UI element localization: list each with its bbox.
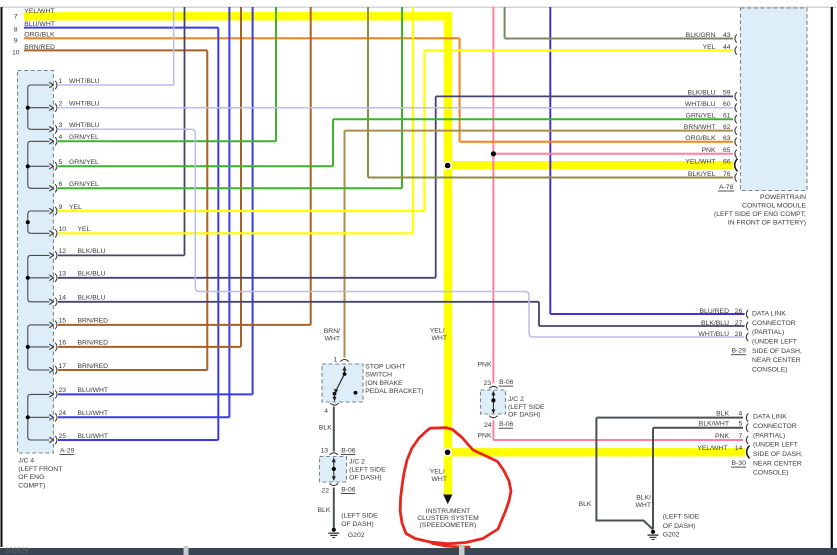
svg-text:YEL/WHT: YEL/WHT <box>24 8 54 15</box>
bottom scrollbar <box>0 548 837 555</box>
svg-text:15: 15 <box>59 318 67 325</box>
svg-text:6: 6 <box>59 181 63 188</box>
J/C 4 pin 24 terminal <box>49 415 53 421</box>
wire GRN/YEL pin5 vertical <box>332 119 334 166</box>
svg-text:BLK: BLK <box>579 501 592 508</box>
PCM pin 65 terminal <box>735 150 737 158</box>
svg-text:BLK/YEL: BLK/YEL <box>688 171 716 178</box>
svg-text:23: 23 <box>59 387 67 394</box>
svg-text:BLK: BLK <box>716 410 729 417</box>
svg-text:WHT/BLU: WHT/BLU <box>69 122 100 129</box>
svg-text:BLU/WHT: BLU/WHT <box>78 387 109 394</box>
wire YEL/WHT 66 branch to PCM <box>448 161 733 169</box>
wire BLU/WHT pin24 horizontal <box>58 416 229 418</box>
svg-text:(LEFT SIDE: (LEFT SIDE <box>663 514 700 521</box>
stop light switch internals <box>343 366 347 371</box>
svg-text:61: 61 <box>723 113 731 120</box>
wire BLK/GRN 43 vertical <box>504 7 506 39</box>
data link B-30 pin 5 terminal <box>746 424 748 432</box>
J/C 2 no.2 box <box>481 390 506 414</box>
svg-text:BLK/GRN: BLK/GRN <box>686 32 716 39</box>
svg-text:PEDAL BRACKET): PEDAL BRACKET) <box>365 388 423 395</box>
PCM pin 44 terminal <box>735 46 737 54</box>
wire GRN/YEL pin4 horizontal <box>58 140 276 142</box>
svg-text:(UNDER LEFT: (UNDER LEFT <box>753 442 798 449</box>
wire BLK/GRN 43 horizontal <box>505 38 733 40</box>
svg-text:B-29: B-29 <box>732 348 747 355</box>
svg-text:YEL/WHT: YEL/WHT <box>685 158 715 165</box>
svg-text:13: 13 <box>320 448 328 455</box>
J/C 4 pin 25 terminal <box>49 437 53 443</box>
J/C 4 internal bus bracket group 6 <box>28 394 50 440</box>
svg-text:INSTRUMENT: INSTRUMENT <box>426 508 471 515</box>
svg-text:BLK/: BLK/ <box>636 495 651 502</box>
svg-text:WHT: WHT <box>325 335 340 342</box>
svg-text:(LEFT SIDE: (LEFT SIDE <box>508 404 545 411</box>
svg-text:DATA LINK: DATA LINK <box>753 414 787 421</box>
svg-text:9: 9 <box>59 204 63 211</box>
svg-text:BLK/BLU: BLK/BLU <box>78 295 106 302</box>
svg-text:ORG/BLK: ORG/BLK <box>24 32 55 39</box>
PCM pin 60 terminal <box>735 104 737 112</box>
stop light switch pin 1 arc <box>340 360 348 362</box>
right page border <box>831 7 833 548</box>
J/C 2 no.2 internals <box>492 392 494 413</box>
svg-text:1: 1 <box>333 357 337 364</box>
svg-text:YEL: YEL <box>69 204 82 211</box>
svg-text:CONNECTOR: CONNECTOR <box>752 320 796 327</box>
PCM pin 66 terminal <box>735 159 738 172</box>
left page border <box>1 7 3 547</box>
J/C 4 pin 14 terminal <box>49 299 53 305</box>
arrow to instrument cluster <box>443 495 452 505</box>
svg-text:24: 24 <box>484 422 492 429</box>
svg-text:(LEFT SIDE: (LEFT SIDE <box>341 513 378 520</box>
data link B-29 pin 26 terminal <box>746 310 748 318</box>
wire BLK/YEL 76 horizontal <box>368 177 733 179</box>
svg-text:GRN/YEL: GRN/YEL <box>686 113 716 120</box>
svg-text:25: 25 <box>59 433 67 440</box>
svg-text:WHT: WHT <box>636 502 651 509</box>
svg-text:10: 10 <box>59 226 67 233</box>
svg-text:(LEFT FRONT: (LEFT FRONT <box>18 466 62 473</box>
wire BRN/WHT 62 horizontal <box>345 130 734 132</box>
scrollbar divider 1 <box>184 546 189 555</box>
J/C 2 no.1 box <box>320 457 347 483</box>
wire YEL pin9 horizontal <box>58 210 424 212</box>
wire BRN/RED row 10 <box>24 49 207 51</box>
wire BLK/BLU pin13 vertical <box>435 96 437 277</box>
svg-text:WHT: WHT <box>432 476 447 483</box>
svg-text:OF DASH): OF DASH) <box>349 475 381 482</box>
wire BLK/WHT 5 vertical to ground <box>652 428 654 529</box>
wire WHT/BLU pin1 horizontal <box>58 84 174 86</box>
PCM pin 76 terminal <box>735 173 737 181</box>
svg-text:7: 7 <box>739 433 743 440</box>
svg-text:BRN/RED: BRN/RED <box>78 340 109 347</box>
svg-text:24: 24 <box>59 410 67 417</box>
svg-text:BLU/WHT: BLU/WHT <box>24 21 55 28</box>
svg-text:14: 14 <box>735 445 743 452</box>
svg-text:BLK/BLU: BLK/BLU <box>701 320 729 327</box>
wire PNK 65 horizontal <box>493 153 733 155</box>
svg-text:7: 7 <box>14 13 18 20</box>
svg-text:26: 26 <box>735 308 743 315</box>
svg-text:NEAR CENTER: NEAR CENTER <box>753 460 802 467</box>
wire BLK/BLU 59 horizontal <box>436 95 733 97</box>
wire GRN/YEL pin6 horizontal <box>58 187 402 189</box>
svg-text:BLK: BLK <box>319 425 332 432</box>
wire BLU/WHT pin25 vertical <box>217 28 219 440</box>
J/C 2 no.1 pin 13 arc <box>330 453 338 455</box>
svg-text:9: 9 <box>14 37 18 44</box>
J/C 2 no.2 pin 24 arc <box>489 416 497 418</box>
svg-text:GRN/YEL: GRN/YEL <box>69 159 99 166</box>
wire BRN/RED pin16 horizontal <box>58 346 241 348</box>
svg-text:GRN/YEL: GRN/YEL <box>69 181 99 188</box>
J/C 2 no.1 pin 22 arc <box>330 483 338 485</box>
wire ORG/BLK 63 vertical <box>459 38 461 142</box>
svg-text:COMPT): COMPT) <box>18 482 45 489</box>
wire BLU/WHT pin24 vertical <box>228 7 230 417</box>
svg-text:10: 10 <box>12 50 20 57</box>
svg-text:NEAR CENTER: NEAR CENTER <box>752 357 801 364</box>
svg-text:YEL/: YEL/ <box>430 469 445 476</box>
J/C 4 pin 6 terminal <box>49 186 53 192</box>
svg-text:PNK: PNK <box>478 433 492 440</box>
svg-text:16: 16 <box>59 340 67 347</box>
svg-text:5: 5 <box>739 421 743 428</box>
wire BLK J/C 2 to ground G202 <box>333 488 335 529</box>
PCM pin 43 terminal <box>735 34 737 42</box>
wire BRN/RED pin17 vertical <box>206 50 208 370</box>
svg-text:GRN/YEL: GRN/YEL <box>69 134 99 141</box>
svg-text:OF DASH): OF DASH) <box>341 521 373 528</box>
wire YEL pin9 vertical <box>423 51 425 212</box>
svg-text:PNK: PNK <box>715 433 729 440</box>
svg-text:B-06: B-06 <box>341 487 356 494</box>
PCM pin 63 terminal <box>735 138 737 146</box>
powertrain control module box <box>741 8 808 191</box>
top page border <box>2 6 836 8</box>
wire BLK 4 horizontal <box>596 417 743 419</box>
svg-text:OF ENG: OF ENG <box>18 474 44 481</box>
svg-text:WHT/BLU: WHT/BLU <box>685 101 716 108</box>
svg-text:BLK/BLU: BLK/BLU <box>78 248 106 255</box>
svg-text:BLU/RED: BLU/RED <box>700 308 730 315</box>
svg-text:23: 23 <box>484 380 492 387</box>
wire BLK 4 vertical + diagonal to ground <box>596 418 653 530</box>
svg-text:(PARTIAL): (PARTIAL) <box>753 432 785 439</box>
svg-text:BRN/RED: BRN/RED <box>24 44 55 51</box>
svg-text:BLU/WHT: BLU/WHT <box>78 410 109 417</box>
svg-text:A-29: A-29 <box>60 448 75 455</box>
PCM pin 59 terminal <box>735 92 737 100</box>
svg-text:102626: 102626 <box>5 548 28 555</box>
J/C 4 pin 13 terminal <box>49 275 53 281</box>
svg-text:B-06: B-06 <box>499 421 514 428</box>
wire YEL/WHT 14 branch to data link B-30 <box>448 448 745 456</box>
wire BLK/BLU pin12 horizontal <box>58 254 185 256</box>
J/C 4 internal bus bracket group 5 <box>28 325 50 370</box>
svg-text:STOP LIGHT: STOP LIGHT <box>365 363 405 370</box>
ground G202 right symbol <box>651 530 655 534</box>
svg-text:CLUSTER SYSTEM: CLUSTER SYSTEM <box>417 515 479 522</box>
svg-text:WHT/BLU: WHT/BLU <box>698 331 729 338</box>
junction node PNK 65 <box>491 151 496 156</box>
svg-text:SIDE OF DASH,: SIDE OF DASH, <box>753 451 803 458</box>
wire BLK/BLU pin12 vertical <box>184 7 186 255</box>
svg-text:BRN/RED: BRN/RED <box>78 363 109 370</box>
svg-text:G202: G202 <box>663 532 680 539</box>
svg-text:J/C 4: J/C 4 <box>18 458 34 465</box>
svg-text:BRN/: BRN/ <box>324 328 340 335</box>
wire BRN/RED pin17 horizontal <box>58 369 207 371</box>
J/C 4 internal bus bracket group 3 <box>28 211 50 233</box>
J/C 4 pin 16 terminal <box>49 344 53 350</box>
svg-text:(UNDER LEFT: (UNDER LEFT <box>752 339 797 346</box>
J/C 4 pin 15 terminal <box>49 322 53 328</box>
wire BRN/WHT stop light switch vertical <box>344 131 346 358</box>
wire BRN/RED pin16 vertical <box>240 7 242 347</box>
wire WHT/BLU pin2 to PCM 60 <box>58 107 733 109</box>
data link B-30 pin 14 terminal <box>747 446 750 459</box>
wire BLU/WHT pin23 horizontal <box>58 393 253 395</box>
svg-text:28: 28 <box>735 331 743 338</box>
svg-text:BRN/RED: BRN/RED <box>78 318 109 325</box>
svg-text:CONSOLE): CONSOLE) <box>753 470 789 477</box>
svg-text:3: 3 <box>59 122 63 129</box>
svg-text:12: 12 <box>59 248 67 255</box>
svg-text:(LEFT SIDE: (LEFT SIDE <box>349 467 386 474</box>
svg-text:IN FRONT OF BATTERY): IN FRONT OF BATTERY) <box>728 220 806 227</box>
wire YEL pin10 horizontal <box>58 232 413 234</box>
wire YEL pin10 vertical <box>412 7 414 233</box>
J/C 4 pin 2 terminal <box>49 105 53 111</box>
wire BLK/WHT 5 horizontal <box>653 427 743 429</box>
J/C 4 pin 9 terminal <box>49 208 53 214</box>
wire WHT/BLU pin3 to data link 28 (rounded path) <box>58 129 745 337</box>
svg-text:B-06: B-06 <box>341 448 356 455</box>
wire BLK switch to J/C 2 <box>333 407 335 452</box>
svg-text:YEL: YEL <box>78 226 91 233</box>
svg-text:WHT: WHT <box>432 335 447 342</box>
svg-text:(ON BRAKE: (ON BRAKE <box>365 380 403 387</box>
wire BLU/WHT row 8 <box>24 27 218 29</box>
wire YEL/WHT pin7 horizontal + vertical trunk <box>24 16 448 495</box>
J/C 4 pin 12 terminal <box>49 253 53 259</box>
stop light switch pin 4 arc <box>330 403 338 405</box>
svg-text:27: 27 <box>735 320 743 327</box>
svg-text:62: 62 <box>723 124 731 131</box>
junction node thick yellow at B-30 branch <box>443 448 452 457</box>
wire GRN/YEL 61 horizontal <box>333 118 733 120</box>
scrollbar divider 2 <box>459 546 465 555</box>
svg-text:63: 63 <box>723 135 731 142</box>
J/C 4 internal bus bracket group 4 <box>28 255 50 301</box>
svg-text:76: 76 <box>723 171 731 178</box>
svg-text:J/C 2: J/C 2 <box>508 396 524 403</box>
svg-text:SWITCH: SWITCH <box>365 372 392 379</box>
svg-text:BLU/WHT: BLU/WHT <box>78 433 109 440</box>
svg-text:BLK/BLU: BLK/BLU <box>78 271 106 278</box>
wire BLU/WHT pin25 horizontal <box>58 439 218 441</box>
svg-text:CONNECTOR: CONNECTOR <box>753 423 797 430</box>
svg-text:POWERTRAIN: POWERTRAIN <box>760 194 806 201</box>
svg-text:17: 17 <box>59 363 67 370</box>
PCM pin 62 terminal <box>735 126 737 134</box>
svg-text:5: 5 <box>59 159 63 166</box>
data link B-30 pin 4 terminal <box>746 413 748 421</box>
wire BLK/BLU 27 horizontal <box>539 325 745 327</box>
wire BLK/BLU 27 vertical <box>538 302 540 326</box>
svg-text:CONTROL MODULE: CONTROL MODULE <box>742 203 806 210</box>
svg-text:2: 2 <box>59 101 63 108</box>
stop light switch box <box>322 364 363 402</box>
wire BLK/YEL 76 vertical <box>367 7 369 178</box>
svg-text:ORG/BLK: ORG/BLK <box>685 135 716 142</box>
svg-text:(PARTIAL): (PARTIAL) <box>752 329 784 336</box>
data link B-30 pin 7 terminal <box>746 436 748 444</box>
svg-text:4: 4 <box>324 408 328 415</box>
wire GRN/YEL pin4 vertical <box>275 7 277 141</box>
wire PNK vertical lower <box>492 421 494 441</box>
svg-text:J/C 2: J/C 2 <box>349 459 365 466</box>
wire PNK vertical upper <box>492 7 494 384</box>
svg-text:44: 44 <box>723 44 731 51</box>
svg-text:(SPEEDOMETER): (SPEEDOMETER) <box>420 522 477 529</box>
svg-text:DATA LINK: DATA LINK <box>752 311 786 318</box>
svg-text:4: 4 <box>739 410 743 417</box>
svg-text:PNK: PNK <box>702 147 716 154</box>
svg-text:66: 66 <box>723 158 731 165</box>
wire BRN/RED pin15 horizontal <box>58 324 311 326</box>
wire YEL 44 horizontal <box>424 49 733 51</box>
svg-text:13: 13 <box>59 271 67 278</box>
wire GRN/YEL pin6 vertical <box>401 7 403 188</box>
data link B-29 pin 28 terminal <box>746 333 748 341</box>
wire BLK/BLU pin14 horizontal <box>58 301 539 303</box>
red annotation circle <box>400 428 511 547</box>
svg-text:CONSOLE): CONSOLE) <box>752 366 788 373</box>
svg-text:22: 22 <box>321 488 329 495</box>
svg-text:A-78: A-78 <box>719 184 734 191</box>
wire BRN/RED pin15 vertical <box>310 7 312 325</box>
svg-text:YEL: YEL <box>703 44 716 51</box>
wire ORG/BLK 63 horizontal <box>460 141 733 143</box>
svg-text:65: 65 <box>723 147 731 154</box>
svg-text:OF DASH): OF DASH) <box>508 412 540 419</box>
svg-text:SIDE OF DASH,: SIDE OF DASH, <box>752 348 802 355</box>
junction connector J/C 4 box (left) <box>18 71 54 454</box>
wire PNK 7 horizontal <box>493 439 743 441</box>
svg-text:59: 59 <box>723 90 731 97</box>
J/C 4 pin 4 terminal <box>49 139 53 145</box>
svg-text:BLK/WHT: BLK/WHT <box>699 421 729 428</box>
svg-text:WHT/BLU: WHT/BLU <box>69 101 100 108</box>
svg-text:G202: G202 <box>348 532 365 539</box>
svg-text:YEL/: YEL/ <box>430 328 445 335</box>
wire BLU/WHT pin23 vertical <box>252 7 254 394</box>
svg-text:OF DASH): OF DASH) <box>663 523 695 530</box>
svg-text:1: 1 <box>59 78 63 85</box>
svg-text:PNK: PNK <box>478 362 492 369</box>
svg-text:BRN/WHT: BRN/WHT <box>684 124 716 131</box>
J/C 2 no.1 internals <box>333 459 335 480</box>
wire BLU/RED 26 horizontal <box>550 313 744 315</box>
wire WHT/BLU pin1 vertical <box>173 7 175 85</box>
svg-text:BLK/BLU: BLK/BLU <box>688 90 716 97</box>
wire GRN/YEL pin5 horizontal <box>58 165 333 167</box>
J/C 4 pin 5 terminal <box>49 164 53 170</box>
ground G202 left symbol <box>332 528 336 532</box>
J/C 4 pin 3 terminal <box>49 127 53 133</box>
svg-text:4: 4 <box>59 134 63 141</box>
J/C 2 no.2 pin 23 arc <box>489 386 497 388</box>
J/C 4 internal bus bracket group 2 <box>28 141 50 188</box>
wire BLK/BLU pin13 horizontal <box>58 277 436 279</box>
svg-text:43: 43 <box>723 32 731 39</box>
data link B-29 pin 27 terminal <box>746 322 748 330</box>
PCM pin 61 terminal <box>735 115 737 123</box>
svg-text:14: 14 <box>59 295 67 302</box>
wire ORG/BLK row 9 <box>24 37 460 39</box>
svg-text:BLK: BLK <box>318 507 331 514</box>
J/C 4 pin 23 terminal <box>49 392 53 398</box>
svg-text:WHT/BLU: WHT/BLU <box>69 78 100 85</box>
svg-text:(LEFT SIDE OF ENG COMPT,: (LEFT SIDE OF ENG COMPT, <box>714 211 806 218</box>
wire BLU/RED 26 vertical <box>549 7 551 314</box>
svg-text:8: 8 <box>14 27 18 34</box>
J/C 4 internal bus bracket group 1 <box>28 85 50 129</box>
svg-text:B-06: B-06 <box>499 379 514 386</box>
J/C 4 pin 1 terminal <box>49 82 53 88</box>
svg-text:60: 60 <box>723 101 731 108</box>
junction node thick yellow at PCM branch <box>443 161 452 170</box>
svg-text:B-30: B-30 <box>732 460 747 467</box>
svg-text:YEL/WHT: YEL/WHT <box>697 445 727 452</box>
J/C 4 pin 10 terminal <box>49 231 53 237</box>
J/C 4 pin 17 terminal <box>49 367 53 373</box>
